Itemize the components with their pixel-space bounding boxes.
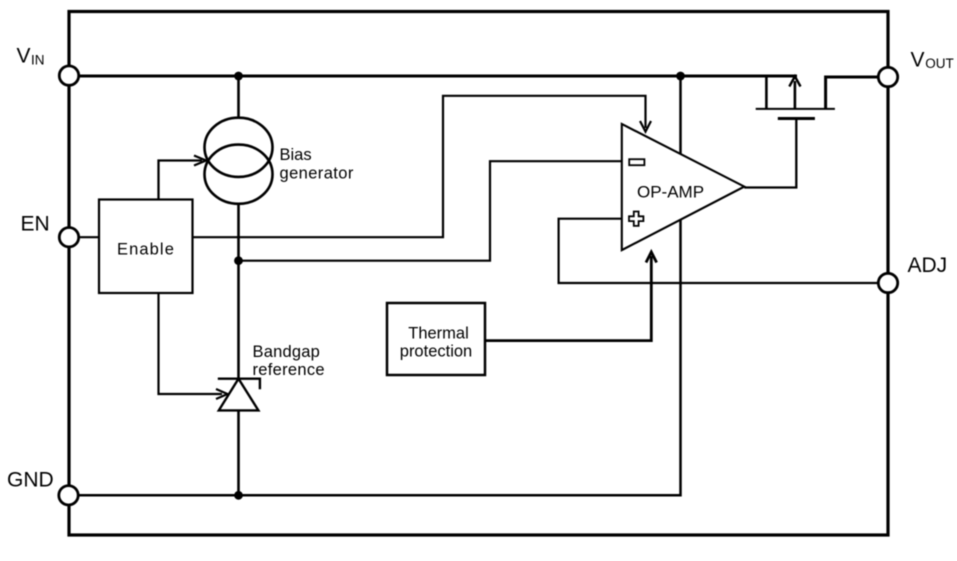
svg-text:protection: protection xyxy=(400,343,472,361)
wire: op-amp output to pass transistor gate xyxy=(744,119,796,188)
terminal: GND pin xyxy=(59,486,78,505)
transistor Q1: pass MOSFET xyxy=(756,76,878,119)
wire: enable to bias generator with arrow xyxy=(159,156,207,200)
op-amp U1: triangle xyxy=(622,124,745,250)
node: VIN-bias junction dot xyxy=(234,72,243,81)
label: Bias generator xyxy=(280,146,354,183)
wire: bias column to bandgap xyxy=(237,203,240,378)
svg-text:reference: reference xyxy=(253,361,325,379)
label: Thermal protection xyxy=(400,325,472,361)
svg-text:Enable: Enable xyxy=(117,241,175,259)
wire: bandgap anode to GND rail xyxy=(237,410,240,495)
gate bar xyxy=(778,117,815,120)
wire: bandgap to op-amp inverting input xyxy=(239,161,622,261)
svg-text:GND: GND xyxy=(7,469,54,492)
svg-text:ADJ: ADJ xyxy=(908,254,948,277)
IC block boundary xyxy=(69,12,888,536)
wire: GND rail and op-amp supply return xyxy=(70,76,681,495)
wire: EN pin to Enable block xyxy=(70,236,99,238)
body lead with arrow xyxy=(794,81,797,109)
label: VOUT xyxy=(911,48,954,71)
node: bandgap-GND junction dot xyxy=(234,491,243,500)
terminal: EN pin xyxy=(59,228,78,247)
drain lead xyxy=(765,76,768,109)
svg-text:Bandgap: Bandgap xyxy=(253,343,320,361)
node: VIN-opamp supply junction dot xyxy=(676,72,685,81)
terminal: VOUT pin xyxy=(878,67,897,86)
block U3: Thermal protection xyxy=(387,303,485,375)
source lead xyxy=(826,77,878,109)
svg-text:V: V xyxy=(911,48,925,71)
svg-text:IN: IN xyxy=(31,52,45,67)
wire: Enable output to op-amp enable input with arrow xyxy=(193,96,652,237)
block U2: Enable xyxy=(99,200,193,294)
current source I1: bias generator circles xyxy=(205,118,273,204)
svg-text:V: V xyxy=(17,45,31,68)
wire: bias column upper stub xyxy=(237,76,240,119)
svg-text:OP-AMP: OP-AMP xyxy=(637,182,704,201)
pin: non-inverting input plus symbol xyxy=(629,212,643,226)
pin: inverting input minus symbol xyxy=(629,159,644,165)
label: Bandgap reference xyxy=(253,343,325,379)
svg-text:Thermal: Thermal xyxy=(408,325,469,343)
node: bandgap-minus input junction dot xyxy=(234,256,243,265)
svg-text:Bias: Bias xyxy=(280,146,312,164)
wire: Enable to bandgap reference with arrow xyxy=(159,293,228,399)
diode D1: bandgap reference zener xyxy=(218,379,260,411)
channel bar xyxy=(756,108,835,110)
wire: thermal protection to op-amp with arrow xyxy=(485,252,657,341)
terminal: VIN pin xyxy=(59,66,78,85)
svg-text:OUT: OUT xyxy=(925,56,954,71)
svg-text:generator: generator xyxy=(280,165,354,183)
wire: ADJ pin to op-amp non-inverting input xyxy=(559,219,878,283)
svg-text:EN: EN xyxy=(21,213,50,236)
terminal: ADJ pin xyxy=(878,273,897,292)
label: VIN xyxy=(17,45,45,68)
wire: VIN top rail xyxy=(70,75,797,78)
